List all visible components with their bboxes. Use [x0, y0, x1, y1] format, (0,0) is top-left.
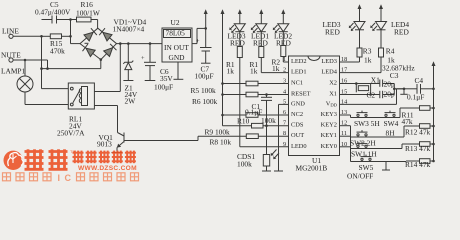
- diode VD1 (top-left edge): [84, 28, 97, 41]
- resistor R12: [404, 124, 435, 137]
- resistor R14: [405, 159, 435, 169]
- switch SW1: [351, 142, 377, 159]
- svg-text:LED2: LED2: [291, 58, 307, 65]
- svg-text:SW3 5H: SW3 5H: [354, 119, 380, 128]
- wire pin16 X2 row: [340, 82, 380, 85]
- wire VQ1 base to R8: [124, 136, 246, 140]
- svg-text:0.47μ/400V: 0.47μ/400V: [35, 8, 71, 17]
- svg-text:IC: IC: [58, 173, 76, 183]
- svg-text:250V/7A: 250V/7A: [57, 129, 85, 138]
- pin numbers U1 right: [341, 56, 347, 148]
- svg-text:C2: C2: [367, 91, 376, 100]
- svg-text:100μF: 100μF: [195, 72, 214, 81]
- svg-text:SW4: SW4: [384, 119, 399, 128]
- svg-text:GND: GND: [169, 53, 186, 62]
- svg-text:LAMP1: LAMP1: [1, 67, 26, 76]
- svg-text:100/1W: 100/1W: [76, 9, 100, 18]
- relay RL1: [57, 83, 94, 138]
- ground CDS1 stub: [262, 166, 271, 171]
- svg-text:2W: 2W: [125, 97, 136, 106]
- svg-text:RED: RED: [325, 28, 340, 37]
- svg-text:GND: GND: [291, 100, 305, 107]
- svg-text:KEY3: KEY3: [321, 111, 337, 118]
- svg-text:X1: X1: [329, 91, 337, 98]
- power arrow LED1 column: [259, 9, 263, 23]
- wire LINE vertical down to relay branch: [40, 36, 68, 88]
- wire pin11 KEY1 row: [340, 136, 403, 148]
- svg-text:R3: R3: [363, 47, 372, 56]
- capacitor C4: [400, 76, 435, 102]
- wire +V rail from bridge right to U2: [117, 42, 163, 45]
- regulator U2 78L05: [162, 18, 192, 62]
- svg-text:7: 7: [283, 120, 286, 127]
- svg-text:ON/OFF: ON/OFF: [347, 172, 373, 181]
- power arrow LED0 column: [238, 9, 242, 23]
- switch SW3: [354, 111, 380, 128]
- resistor R1 (LED1): [250, 32, 264, 76]
- wire relay coil top to +24V rail: [94, 44, 120, 92]
- capacitor C5: [35, 0, 71, 24]
- resistor R3: [340, 30, 372, 65]
- watermark brand characters: [25, 149, 136, 170]
- watermark dzsc logo: [4, 151, 24, 170]
- pin labels U1 right: [321, 58, 338, 150]
- svg-text:X1: X1: [371, 76, 380, 85]
- wire pin13 KEY3 row: [340, 108, 401, 118]
- wire pin15 X1 row: [340, 93, 380, 96]
- svg-text:LED3: LED3: [321, 58, 337, 65]
- resistor R6: [192, 92, 289, 106]
- svg-text:4: 4: [283, 89, 286, 96]
- svg-text:R8 10k: R8 10k: [210, 138, 232, 147]
- svg-text:R14 47k: R14 47k: [405, 160, 431, 169]
- svg-text:R6 100k: R6 100k: [192, 97, 218, 106]
- switch SW5: [347, 155, 374, 181]
- svg-text:X2: X2: [329, 80, 337, 87]
- diode VD3 (bottom-left edge): [83, 44, 96, 57]
- svg-text:0.1μF: 0.1μF: [245, 108, 262, 117]
- svg-text:1: 1: [283, 56, 286, 63]
- wire LED0 column to pin9: [240, 58, 289, 147]
- photoresistor CDS1: [237, 150, 279, 169]
- crystal X1: [356, 64, 415, 95]
- svg-text:R13 47k: R13 47k: [405, 144, 431, 153]
- zener Z1: [123, 44, 138, 106]
- watermark slogan row: [3, 173, 139, 183]
- resistor R9: [205, 123, 289, 136]
- resistor R5: [191, 81, 289, 95]
- power arrow +5V at C7 node: [204, 9, 208, 28]
- LED LED3 (pin18): [323, 20, 366, 37]
- bridge polarity mark: [85, 42, 89, 44]
- svg-text:1k: 1k: [272, 64, 280, 73]
- svg-text:470k: 470k: [50, 47, 65, 56]
- svg-text:SW1 1H: SW1 1H: [351, 150, 377, 159]
- resistor R16: [69, 0, 100, 22]
- svg-text:LED4: LED4: [321, 69, 337, 76]
- svg-text:+: +: [196, 38, 200, 45]
- svg-text:8H: 8H: [386, 129, 396, 138]
- node LINE terminal: [2, 27, 43, 39]
- svg-text:9: 9: [283, 141, 286, 148]
- svg-text:100k: 100k: [237, 160, 252, 169]
- wire C5/R15 right node down to bridge left: [71, 20, 81, 44]
- ground SW5 stub: [382, 162, 390, 171]
- wire LED2 column to pin1: [283, 57, 288, 63]
- svg-text:NC1: NC1: [291, 80, 303, 87]
- svg-text:9013: 9013: [97, 140, 112, 149]
- svg-text:C4: C4: [415, 76, 424, 85]
- LED LED1 (middle): [251, 24, 269, 48]
- capacitor C2: [367, 90, 395, 100]
- pin labels U1 left: [291, 58, 311, 150]
- power arrow LED4 right column: [379, 4, 383, 21]
- svg-text:32.687kHz: 32.687kHz: [382, 64, 415, 73]
- svg-text:5: 5: [283, 98, 286, 105]
- svg-text:C3: C3: [390, 71, 399, 80]
- svg-text:U2: U2: [171, 18, 180, 27]
- svg-text:WWW.DZSC.COM: WWW.DZSC.COM: [78, 165, 137, 172]
- svg-text:MG2001B: MG2001B: [296, 164, 328, 173]
- wire bottom AC node to bridge bottom: [42, 58, 103, 68]
- svg-text:8: 8: [283, 130, 286, 137]
- wire relay coil bottom to VQ1 collector: [94, 106, 117, 133]
- svg-text:RESET: RESET: [291, 91, 311, 98]
- svg-text:1k: 1k: [364, 56, 372, 65]
- wire C1/CDS node vertical: [266, 100, 268, 154]
- resistor R15: [42, 34, 72, 56]
- ground pin5 GND stub: [274, 104, 289, 171]
- svg-text:R9 100k: R9 100k: [205, 128, 231, 137]
- svg-text:OUT: OUT: [291, 132, 304, 139]
- power arrow LED3 right column: [358, 4, 362, 21]
- wire LED1 column to pin2: [261, 58, 288, 73]
- svg-text:IN OUT: IN OUT: [164, 43, 189, 52]
- svg-text:LED1: LED1: [291, 69, 307, 76]
- transistor VQ1 9013: [97, 133, 124, 153]
- node NUTE terminal: [1, 51, 49, 70]
- svg-text:R4: R4: [386, 47, 395, 56]
- svg-text:20p: 20p: [384, 80, 395, 89]
- svg-text:KEY1: KEY1: [321, 132, 337, 139]
- svg-text:2: 2: [283, 67, 286, 74]
- svg-text:CDS: CDS: [291, 122, 304, 129]
- resistor R4: [340, 30, 395, 73]
- wire pin10 KEY0 row: [340, 147, 407, 162]
- svg-text:KEY2: KEY2: [321, 122, 337, 129]
- switch SW2: [350, 130, 376, 147]
- wire U2 OUT to +5V node: [192, 27, 207, 43]
- wire pin12 KEY2 row: [340, 126, 405, 137]
- svg-text:100μF: 100μF: [154, 83, 173, 92]
- resistor R2: [272, 32, 286, 73]
- svg-text:R10: R10: [237, 117, 250, 126]
- power arrow right VDD rail: [432, 61, 436, 161]
- capacitor C3: [380, 71, 399, 89]
- wire R16 to bridge top: [97, 20, 99, 29]
- resistor R8: [210, 134, 289, 147]
- svg-text:SW2 2H: SW2 2H: [350, 139, 376, 148]
- capacitor C7: [195, 28, 214, 80]
- svg-text:KEY0: KEY0: [321, 143, 337, 150]
- svg-text:78L05: 78L05: [166, 29, 186, 38]
- svg-text:NC2: NC2: [291, 111, 303, 118]
- svg-text:6: 6: [283, 109, 286, 116]
- svg-text:RED: RED: [394, 28, 409, 37]
- resistor R10: [223, 113, 289, 126]
- svg-text:1N4007×4: 1N4007×4: [113, 25, 145, 34]
- diode VD2 (top-right edge): [99, 28, 112, 41]
- capacitor C6: [141, 44, 173, 92]
- LED LED4 (pin17): [370, 20, 409, 37]
- svg-text:R5 100k: R5 100k: [191, 86, 217, 95]
- svg-text:20p: 20p: [384, 90, 395, 99]
- resistor R13: [402, 142, 435, 153]
- svg-text:VDD: VDD: [326, 100, 338, 107]
- wire pin14 VDD row: [340, 88, 406, 105]
- switch SW4: [384, 111, 399, 138]
- resistor R11: [400, 106, 435, 126]
- wire crystal caps common node: [393, 84, 404, 95]
- capacitor C1: [245, 95, 272, 117]
- svg-text:1k: 1k: [227, 67, 235, 76]
- svg-text:3: 3: [283, 78, 286, 85]
- svg-text:1k: 1k: [250, 67, 258, 76]
- diode VD4 (bottom-right edge): [104, 44, 117, 57]
- svg-text:47k: 47k: [402, 117, 413, 126]
- LED LED3 (left): [228, 24, 246, 48]
- resistor R1 (LED3): [226, 32, 242, 76]
- power arrow LED2 column: [281, 9, 285, 23]
- svg-text:LED0: LED0: [291, 143, 307, 150]
- diode bridge VD1~VD4: [80, 18, 147, 60]
- op-amp U1 MG2001B (IC box): [289, 56, 340, 173]
- svg-text:+: +: [141, 55, 145, 62]
- pin numbers U1 left: [283, 56, 286, 148]
- ground U2 GND stub: [174, 62, 184, 79]
- svg-text:R12 47k: R12 47k: [405, 128, 431, 137]
- svg-text:0.1μF: 0.1μF: [407, 93, 424, 102]
- lamp LAMP1: [1, 60, 68, 105]
- power arrow VDD rail (middle): [221, 9, 225, 125]
- LED LED2 (right): [273, 24, 292, 48]
